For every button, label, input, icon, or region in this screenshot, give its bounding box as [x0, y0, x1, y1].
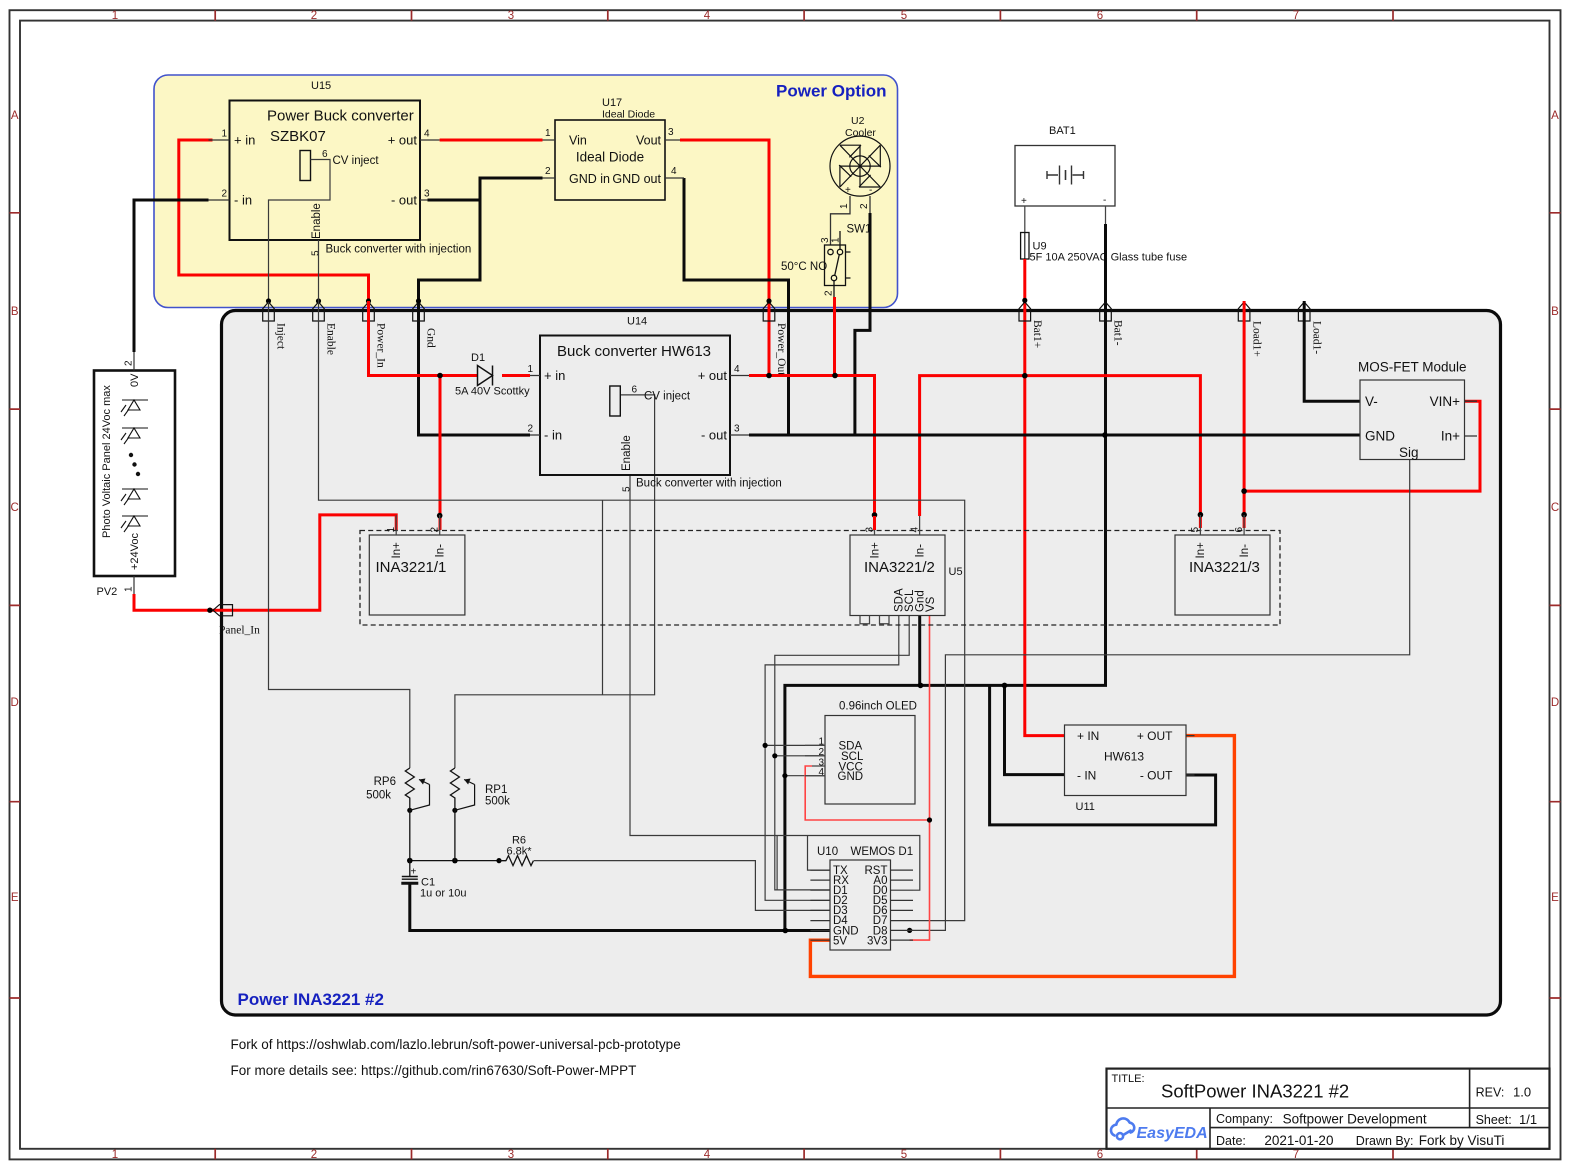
- svg-text:1: 1: [112, 10, 118, 22]
- svg-text:GND: GND: [838, 771, 864, 783]
- svg-text:5: 5: [311, 250, 322, 256]
- svg-text:In+: In+: [391, 542, 403, 559]
- svg-text:1: 1: [545, 128, 551, 139]
- svg-text:3: 3: [508, 1149, 514, 1161]
- wire U15 CV inject to Inject port: [269, 160, 331, 303]
- svg-text:EasyEDA: EasyEDA: [1137, 1125, 1208, 1142]
- svg-text:Load1-: Load1-: [1310, 321, 1322, 354]
- wire GND to U11 -IN: [1005, 685, 1065, 774]
- svg-text:6: 6: [632, 385, 638, 396]
- svg-text:Drawn By:: Drawn By:: [1356, 1134, 1414, 1148]
- potentiometer RP6: [405, 768, 414, 861]
- svg-text:+ OUT: + OUT: [1137, 729, 1173, 743]
- port Panel_In: [213, 605, 233, 616]
- port Bat1+: [1019, 302, 1031, 321]
- svg-text:5V: 5V: [833, 935, 847, 947]
- svg-text:4: 4: [909, 527, 920, 533]
- svg-text:GND: GND: [1365, 429, 1395, 444]
- svg-text:7: 7: [1293, 1149, 1299, 1161]
- svg-text:In+: In+: [870, 542, 882, 559]
- port Load1+: [1238, 302, 1250, 321]
- wire Load1+ to INA3221/3 In- red: [1243, 301, 1246, 528]
- svg-text:For more details see: https://: For more details see: https://github.com…: [231, 1063, 637, 1078]
- wire OLED VCC branch red: [805, 766, 929, 820]
- svg-text:2: 2: [124, 360, 135, 366]
- svg-text:1: 1: [527, 364, 533, 375]
- svg-text:2: 2: [824, 290, 835, 296]
- svg-text:Panel_In: Panel_In: [219, 625, 260, 637]
- svg-text:+ out: + out: [698, 368, 728, 383]
- svg-text:U15: U15: [311, 80, 331, 92]
- U15 pin leads: [209, 140, 440, 200]
- svg-text:Buck converter with injection: Buck converter with injection: [636, 478, 782, 490]
- svg-text:- in: - in: [544, 428, 562, 443]
- svg-text:RP6: RP6: [374, 776, 396, 788]
- svg-text:CV inject: CV inject: [644, 391, 691, 403]
- svg-text:U14: U14: [627, 316, 647, 328]
- svg-text:- IN: - IN: [1077, 769, 1096, 783]
- svg-text:HW613: HW613: [1104, 750, 1144, 764]
- svg-text:Ideal Diode: Ideal Diode: [602, 109, 655, 121]
- wire SW1 pin2 red: [833, 297, 836, 376]
- svg-text:- OUT: - OUT: [1140, 769, 1173, 783]
- svg-text:U2: U2: [851, 115, 865, 127]
- wire U14 Enable to D0: [630, 475, 920, 890]
- wire U5 Gnd pin thick: [918, 616, 921, 686]
- svg-text:1: 1: [124, 586, 135, 592]
- svg-text:B: B: [1551, 306, 1559, 318]
- svg-text:+24Voc: +24Voc: [129, 532, 141, 570]
- svg-text:1: 1: [386, 527, 397, 533]
- svg-text:C: C: [1551, 502, 1559, 514]
- svg-text:MOS-FET Module: MOS-FET Module: [1358, 360, 1467, 375]
- svg-text:4: 4: [704, 1149, 711, 1161]
- wire R6 to WEMOS D3: [534, 861, 830, 911]
- svg-text:REV:: REV:: [1476, 1086, 1505, 1100]
- U10 pin leads: [810, 870, 830, 940]
- svg-text:2021-01-20: 2021-01-20: [1264, 1133, 1333, 1148]
- svg-text:2: 2: [311, 10, 317, 22]
- wire MOS-FET Sig to WEMOS D8: [910, 460, 1410, 931]
- ruler ticks right: [1550, 213, 1561, 998]
- svg-text:5: 5: [901, 1149, 907, 1161]
- capacitor C1: [409, 861, 411, 876]
- svg-text:A: A: [11, 110, 19, 122]
- wire Load1- to MOS-FET V-: [1304, 301, 1360, 401]
- svg-text:2: 2: [430, 527, 441, 533]
- svg-text:-: -: [1103, 195, 1106, 206]
- svg-text:5: 5: [1190, 527, 1201, 533]
- svg-text:Sheet:: Sheet:: [1476, 1113, 1512, 1127]
- svg-text:+: +: [1021, 196, 1027, 207]
- fuse U9: [1021, 233, 1029, 260]
- port Inject: [263, 302, 275, 321]
- wire SDA net U5 to OLED and D2: [765, 616, 899, 901]
- svg-text:Power Option: Power Option: [776, 82, 887, 101]
- svg-text:0.96inch OLED: 0.96inch OLED: [839, 701, 917, 713]
- diode D1: [478, 366, 493, 386]
- svg-text:U11: U11: [1076, 801, 1095, 813]
- svg-text:+ out: + out: [388, 133, 418, 148]
- svg-text:Bat1+: Bat1+: [1031, 320, 1043, 348]
- svg-text:CV inject: CV inject: [333, 155, 380, 167]
- svg-text:1u or 10u: 1u or 10u: [420, 888, 466, 900]
- svg-text:B: B: [11, 306, 19, 318]
- wire RP6 RP1 R6 node: [410, 860, 506, 862]
- resistor R6: [499, 856, 534, 866]
- wire OLED GND row: [785, 775, 825, 777]
- wire node join Enable to RP1 row: [602, 500, 604, 695]
- svg-text:PV2: PV2: [97, 586, 118, 598]
- svg-text:HW613: HW613: [661, 343, 711, 360]
- PV2 pin leads: [133, 352, 135, 594]
- svg-text:INA3221/2: INA3221/2: [864, 559, 935, 576]
- svg-text:+: +: [411, 867, 417, 878]
- wire BAT1+ to Bat1+ port red: [1023, 259, 1026, 376]
- display 0.96inch OLED: [825, 716, 915, 805]
- battery BAT1: [1015, 146, 1115, 207]
- svg-text:VIN+: VIN+: [1430, 394, 1461, 409]
- svg-text:3V3: 3V3: [867, 935, 887, 947]
- wire U14 CV inject to RP1: [455, 395, 655, 768]
- svg-text:6: 6: [1097, 1149, 1103, 1161]
- svg-text:500k: 500k: [366, 790, 391, 802]
- PV2 solar cell symbols: [121, 400, 148, 532]
- svg-text:6: 6: [1097, 10, 1103, 22]
- U2 pin leads: [831, 196, 871, 245]
- svg-text:500k: 500k: [485, 796, 510, 808]
- svg-text:RP1: RP1: [485, 784, 507, 796]
- port Load1-: [1298, 302, 1310, 321]
- svg-text:GND in: GND in: [569, 172, 610, 186]
- svg-text:50°C NO: 50°C NO: [781, 261, 827, 273]
- svg-text:TITLE:: TITLE:: [1112, 1073, 1145, 1085]
- wire U15 +in red: [179, 140, 369, 301]
- wire Enable net TX drop: [808, 836, 831, 871]
- potentiometer RP1: [450, 768, 459, 861]
- svg-text:3: 3: [508, 10, 514, 22]
- svg-text:Date:: Date:: [1216, 1134, 1246, 1148]
- svg-text:E: E: [1551, 892, 1559, 904]
- svg-text:Power_Out: Power_Out: [775, 323, 787, 376]
- svg-text:Fork of https://oshwlab.com/la: Fork of https://oshwlab.com/lazlo.lebrun…: [231, 1037, 681, 1052]
- wire BAT1- / GND bus thick: [785, 224, 1106, 931]
- svg-text:Ideal Diode: Ideal Diode: [576, 150, 644, 165]
- node title block grid: [1107, 1069, 1550, 1149]
- svg-text:4: 4: [671, 166, 677, 177]
- switch SW1: [825, 231, 851, 297]
- svg-text:- out: - out: [701, 428, 727, 443]
- meter INA3221/1: [369, 535, 465, 615]
- port Bat1-: [1100, 302, 1112, 321]
- BAT1 pin leads: [1025, 206, 1106, 233]
- wire D1 cathode to U14 +in red: [502, 374, 530, 377]
- svg-text:Inject: Inject: [275, 323, 287, 350]
- diode U17 Ideal Diode: [555, 120, 665, 200]
- svg-text:Fork by VisuTi: Fork by VisuTi: [1419, 1133, 1505, 1148]
- port Enable: [313, 302, 325, 321]
- wire Power_In to D1 red: [369, 301, 478, 376]
- node INA3221 dashed group box: [360, 531, 1280, 626]
- svg-text:3: 3: [668, 127, 674, 138]
- svg-text:1/1: 1/1: [1519, 1112, 1537, 1127]
- meter INA3221/2 U5: [850, 535, 945, 616]
- svg-text:INA3221/1: INA3221/1: [376, 559, 447, 576]
- wire C1 GND to WEMOS GND: [410, 883, 830, 931]
- svg-text:1: 1: [839, 203, 850, 209]
- svg-text:3: 3: [734, 424, 740, 435]
- wire SCL net U5 to OLED and D1: [775, 616, 909, 890]
- svg-text:- out: - out: [391, 193, 417, 208]
- svg-text:SZBK07: SZBK07: [270, 128, 326, 145]
- photovoltaic panel PV2: [94, 371, 175, 577]
- svg-text:Bat1-: Bat1-: [1112, 320, 1124, 346]
- svg-text:2: 2: [221, 189, 227, 200]
- svg-text:1: 1: [818, 737, 824, 748]
- svg-text:INA3221/3: INA3221/3: [1189, 559, 1260, 576]
- svg-text:6: 6: [1234, 527, 1245, 533]
- svg-text:4: 4: [734, 364, 740, 375]
- svg-text:4: 4: [424, 129, 430, 140]
- svg-text:Company:: Company:: [1216, 1112, 1273, 1126]
- svg-text:5: 5: [901, 10, 907, 22]
- svg-text:In+: In+: [1195, 542, 1207, 559]
- wire +out net right segment red: [920, 376, 1201, 528]
- wire U5 VS to WEMOS 3V3 red: [910, 616, 930, 941]
- svg-text:Vout: Vout: [636, 134, 662, 148]
- converter U11 HW613: [1065, 725, 1187, 796]
- svg-text:Enable: Enable: [621, 435, 633, 471]
- svg-text:1: 1: [831, 237, 842, 243]
- svg-text:2: 2: [859, 203, 870, 209]
- svg-text:In-: In-: [435, 544, 447, 558]
- wire U17 Vout to Power_Out red: [680, 140, 769, 376]
- svg-text:SW1: SW1: [847, 224, 872, 236]
- svg-text:3: 3: [424, 189, 430, 200]
- svg-text:2: 2: [545, 166, 551, 177]
- node Power INA3221 #2 gray region: [222, 311, 1501, 1016]
- svg-text:U17: U17: [602, 97, 622, 109]
- ruler ticks left: [10, 213, 21, 998]
- wire stub at D1 row: [776, 836, 778, 890]
- svg-text:6: 6: [322, 149, 328, 160]
- svg-text:+ in: + in: [544, 368, 565, 383]
- svg-text:4: 4: [704, 10, 711, 22]
- svg-text:D1: D1: [471, 352, 485, 364]
- svg-text:2: 2: [527, 424, 533, 435]
- svg-text:C: C: [11, 502, 19, 514]
- svg-text:D: D: [1551, 697, 1559, 709]
- svg-text:- in: - in: [234, 193, 252, 208]
- wire Inject net: [269, 302, 410, 768]
- svg-text:Power Buck converter: Power Buck converter: [267, 108, 414, 125]
- svg-text:6.8k*: 6.8k*: [506, 846, 532, 858]
- svg-text:In-: In-: [914, 544, 926, 558]
- meter INA3221/3: [1175, 535, 1270, 615]
- svg-text:GND out: GND out: [612, 172, 661, 186]
- logo EasyEDA: [1111, 1118, 1134, 1139]
- svg-text:Vin: Vin: [569, 134, 587, 148]
- node Power Option yellow region: [154, 75, 898, 308]
- svg-text:Photo Voltaic Panel 24Voc max: Photo Voltaic Panel 24Voc max: [101, 385, 113, 538]
- svg-text:E: E: [11, 892, 19, 904]
- svg-text:0V: 0V: [129, 373, 141, 387]
- wire U11 +OUT to WEMOS 5V orange: [810, 736, 1234, 977]
- svg-text:A: A: [1551, 110, 1559, 122]
- converter U14: [540, 336, 730, 476]
- wire -out GND horizontal: [749, 434, 1360, 437]
- svg-text:SoftPower INA3221 #2: SoftPower INA3221 #2: [1161, 1081, 1349, 1102]
- wire U17 GND out down into box: [684, 178, 789, 435]
- wire U15 +out to U17 Vin red: [440, 139, 543, 142]
- wire Load1+ to MOS-FET VIN+ red: [1244, 401, 1480, 491]
- svg-text:Buck converter: Buck converter: [557, 343, 657, 360]
- wire Enable net: [319, 240, 965, 921]
- svg-text:BAT1: BAT1: [1049, 125, 1076, 137]
- svg-text:In+: In+: [1441, 429, 1460, 444]
- svg-text:1: 1: [221, 129, 227, 140]
- wire Bat1+ to U11 +IN red: [1025, 376, 1065, 736]
- svg-text:Sig: Sig: [1399, 445, 1419, 460]
- svg-text:5A 40V Scottky: 5A 40V Scottky: [455, 386, 530, 398]
- svg-text:3: 3: [865, 527, 876, 533]
- port Gnd: [413, 302, 425, 321]
- svg-text:1: 1: [112, 1149, 118, 1161]
- svg-text:U5: U5: [949, 566, 963, 578]
- svg-text:Load1+: Load1+: [1250, 321, 1262, 357]
- svg-text:Enable: Enable: [311, 203, 323, 239]
- svg-text:5F 10A 250VAC Glass tube fuse: 5F 10A 250VAC Glass tube fuse: [1030, 252, 1188, 264]
- microcontroller U10 WEMOS D1: [830, 860, 891, 950]
- wire U15 -in to PV2 0V: [134, 200, 209, 352]
- svg-text:WEMOS D1: WEMOS D1: [851, 846, 914, 858]
- module MOS-FET: [1360, 380, 1465, 460]
- wire PV2 +24Voc to Panel_In red: [134, 515, 396, 610]
- svg-text:U10: U10: [817, 846, 838, 858]
- wire U11 -OUT loop: [990, 685, 1216, 825]
- svg-text:+ IN: + IN: [1077, 729, 1099, 743]
- svg-text:Gnd: Gnd: [425, 328, 437, 348]
- svg-text:VS: VS: [925, 596, 937, 612]
- port Power_In: [363, 302, 375, 321]
- svg-text:Power INA3221 #2: Power INA3221 #2: [238, 990, 384, 1009]
- svg-text:Power_In: Power_In: [375, 323, 387, 368]
- wire U14 +out net red: [749, 376, 875, 517]
- ruler ticks bottom: [215, 1149, 1393, 1160]
- svg-text:3: 3: [820, 237, 831, 243]
- svg-text:5: 5: [622, 486, 633, 492]
- U17 pin leads: [543, 140, 685, 178]
- port Power_Out: [763, 302, 775, 321]
- svg-text:-: -: [869, 185, 872, 196]
- svg-text:Buck converter with injection: Buck converter with injection: [326, 244, 472, 256]
- wire fan U2 pin2 to GND net: [855, 213, 870, 435]
- svg-text:Softpower Development: Softpower Development: [1283, 1112, 1427, 1127]
- wire D1 junction to INA3221/1 In- red: [439, 376, 442, 531]
- svg-text:+: +: [845, 185, 851, 196]
- svg-text:4: 4: [818, 767, 824, 778]
- svg-text:+ in: + in: [234, 133, 255, 148]
- wire U15 -out / U17 GND in / Gnd port: [419, 178, 543, 435]
- U5 bottom stub brackets: [860, 616, 889, 624]
- svg-text:D: D: [11, 697, 19, 709]
- svg-text:Cooler: Cooler: [845, 127, 876, 139]
- svg-text:7: 7: [1293, 10, 1299, 22]
- ruler ticks top: [215, 10, 1393, 20]
- svg-text:Enable: Enable: [325, 323, 337, 355]
- svg-text:V-: V-: [1365, 394, 1378, 409]
- svg-text:In-: In-: [1239, 544, 1251, 558]
- svg-text:2: 2: [311, 1149, 317, 1161]
- converter U15: [230, 101, 421, 241]
- svg-text:1.0: 1.0: [1513, 1085, 1531, 1100]
- fan U2 Cooler: [830, 136, 890, 196]
